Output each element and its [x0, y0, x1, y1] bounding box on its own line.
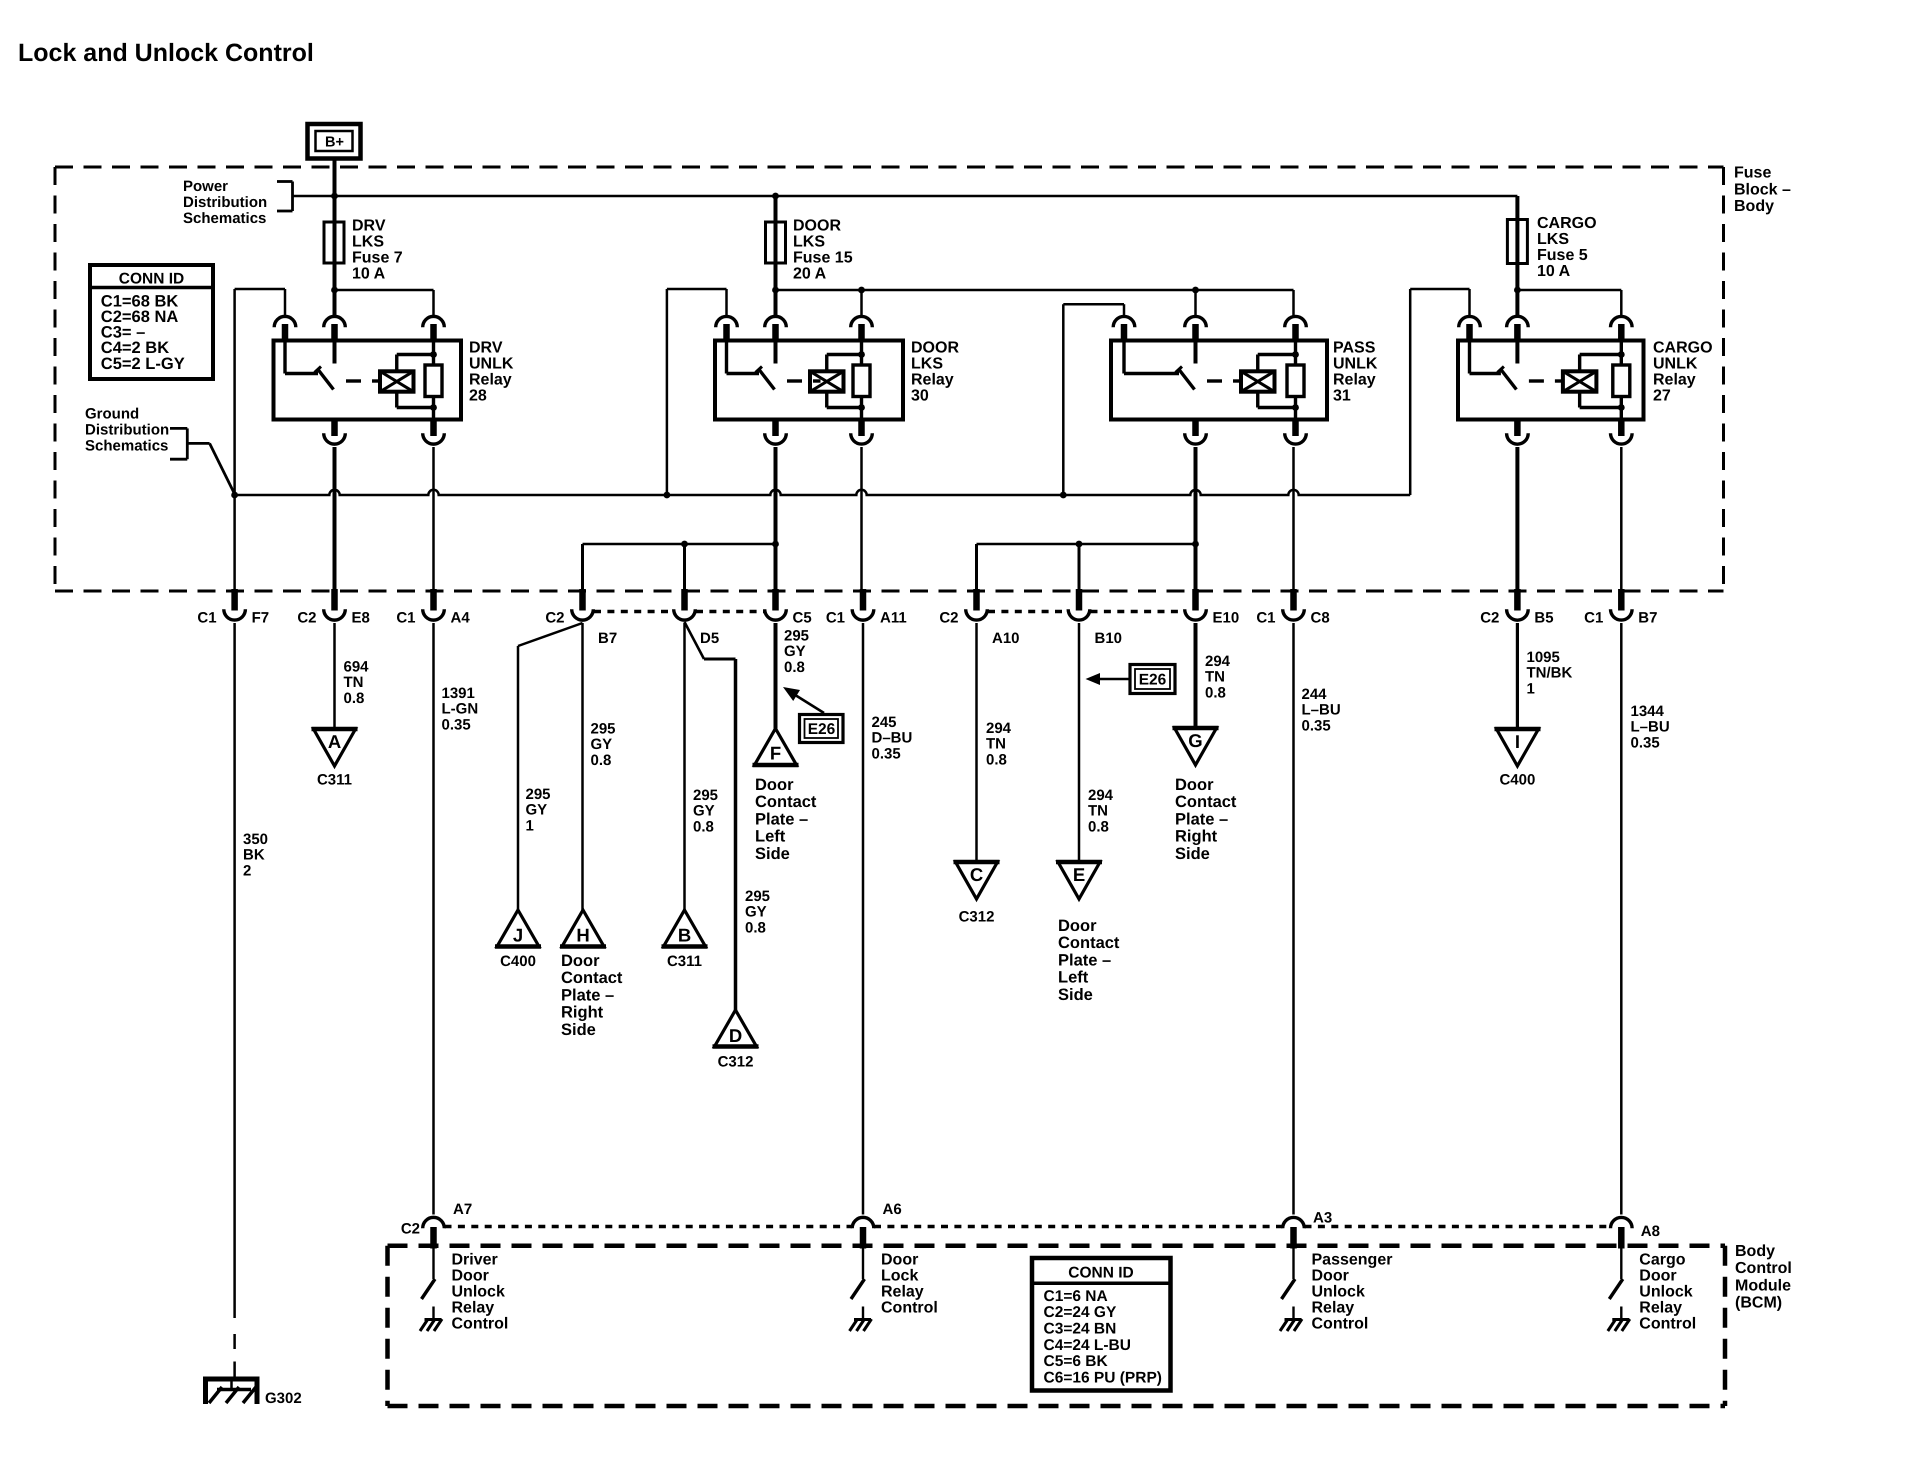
connector arc pin 2 (top) [324, 316, 346, 327]
label: Door Contact Plate - Left Side (E) [1058, 917, 1120, 1004]
svg-text:H: H [576, 925, 589, 946]
svg-text:Plate –: Plate – [561, 986, 614, 1004]
fuse: DOOR LKS Fuse 15 20 A [766, 196, 786, 316]
svg-text:Side: Side [755, 845, 790, 863]
label: 295 GY 0.8 (F) [784, 628, 809, 676]
BCM dashed outline [388, 1246, 1726, 1406]
wire: relay31 coil out to C8 [1292, 447, 1295, 591]
wire 350 BK 2 to G302 [233, 623, 236, 1318]
svg-text:C312: C312 [959, 909, 995, 926]
svg-text:C3=24 BN: C3=24 BN [1044, 1321, 1117, 1338]
svg-text:Plate –: Plate – [1058, 951, 1111, 969]
junction: coil/resistor bottom [1618, 404, 1625, 411]
wire: relay30 switch out to C5 [774, 447, 778, 591]
svg-text:1: 1 [526, 817, 534, 834]
wire: power distribution bus [293, 195, 1518, 198]
switch (movable contact) [1122, 341, 1125, 374]
svg-text:Power: Power [183, 178, 228, 195]
label: 1391 L-GN 0.35 [442, 685, 479, 733]
wire: relay28 coil out to A4 [432, 447, 435, 591]
internal ground for A6 [854, 1318, 871, 1321]
relay coil [1563, 371, 1597, 391]
svg-text:1095: 1095 [1527, 649, 1560, 666]
triangle connector C / C312 [954, 862, 1000, 899]
svg-text:C312: C312 [718, 1054, 754, 1071]
fuse: DRV LKS Fuse 7 10 A [324, 196, 344, 316]
svg-text:Passenger: Passenger [1312, 1252, 1393, 1269]
triangle connector I / C400 [1495, 729, 1541, 766]
svg-text:Control: Control [1735, 1260, 1792, 1277]
svg-text:Relay: Relay [1333, 372, 1376, 389]
svg-text:694: 694 [344, 659, 370, 676]
svg-text:0.35: 0.35 [872, 745, 901, 762]
junction: E10 branch [1192, 541, 1199, 548]
wire: B7 diagonal to J [518, 623, 583, 646]
wire: relay28 switch out to E8 [333, 447, 337, 591]
svg-text:1: 1 [1527, 680, 1535, 697]
svg-text:0.35: 0.35 [1631, 734, 1660, 751]
connector arc pin 1 (top) [1113, 316, 1135, 327]
label pointer: Ground Distribution Schematics [85, 406, 235, 495]
connector arc pin 2 (top) [765, 316, 787, 327]
svg-text:Door: Door [561, 952, 600, 970]
callout E26 (right) [1086, 665, 1176, 694]
svg-text:245: 245 [872, 714, 897, 731]
svg-text:Fuse: Fuse [1734, 165, 1771, 182]
svg-text:E: E [1073, 864, 1085, 885]
connector arc pin 5 (coil out) (bottom) [1618, 418, 1625, 437]
svg-text:Control: Control [881, 1300, 938, 1317]
svg-text:A3: A3 [1313, 1210, 1332, 1227]
svg-text:20 A: 20 A [793, 266, 827, 283]
relay resistor [860, 341, 863, 366]
triangle connector D / C312 [713, 1010, 759, 1047]
wire: relay 31 NC contact to ground bus [1062, 304, 1065, 495]
wire: ground link to pin 1 [235, 288, 285, 291]
svg-text:0.8: 0.8 [745, 919, 766, 936]
connector arc pin 4 (switch out) (bottom) [1192, 418, 1199, 437]
BCM driver switch for A7 [432, 1249, 434, 1280]
svg-text:C2: C2 [1480, 610, 1499, 627]
wire 295 GY 0.8 (C5) to F [774, 623, 778, 729]
internal ground for A3 [1285, 1318, 1302, 1321]
svg-text:294: 294 [1205, 653, 1231, 670]
svg-text:B+: B+ [325, 135, 344, 151]
svg-text:J: J [513, 925, 523, 946]
svg-text:C2: C2 [401, 1221, 420, 1238]
table: CONN ID (fuse block) [90, 265, 213, 379]
ground G302 [203, 1379, 260, 1404]
svg-text:294: 294 [986, 720, 1012, 737]
switch (movable contact) [725, 341, 728, 374]
wire 1344 L-BU 0.35 to BCM A8 [1620, 623, 1623, 1215]
svg-text:31: 31 [1333, 388, 1351, 405]
svg-text:Relay: Relay [452, 1300, 495, 1317]
label: 295 GY 0.8 (H) [591, 721, 616, 769]
label: CARGO LKS Fuse 5 10A [1537, 215, 1597, 280]
svg-text:Driver: Driver [452, 1252, 498, 1269]
svg-text:295: 295 [591, 721, 616, 738]
connector arc pin 3 (top) [1611, 316, 1633, 327]
label: 694 TN 0.8 [344, 659, 370, 707]
svg-text:Lock and Unlock Control: Lock and Unlock Control [18, 39, 314, 67]
svg-text:E26: E26 [1139, 672, 1167, 689]
label: 1095 TN/BK 1 [1527, 649, 1573, 697]
svg-text:C2: C2 [939, 610, 958, 627]
svg-text:244: 244 [1302, 686, 1328, 703]
svg-text:F7: F7 [252, 610, 270, 627]
svg-text:Control: Control [452, 1316, 509, 1333]
wire: relay 27 NC contact to ground bus [1409, 289, 1412, 495]
svg-text:B10: B10 [1095, 630, 1123, 647]
svg-text:D: D [729, 1025, 742, 1046]
svg-text:GY: GY [693, 803, 715, 820]
svg-text:1391: 1391 [442, 685, 475, 702]
connector pin E10 at x=1195.5 [1185, 589, 1240, 627]
connector pin B7 at x=1621.3 [1584, 589, 1657, 627]
connector arc pin 1 (top) [1459, 316, 1481, 327]
switch common stub (pin 2 internal) [1194, 341, 1198, 364]
triangle connector H [560, 910, 606, 947]
svg-text:Relay: Relay [1639, 1300, 1682, 1317]
BCM connector pin A3 [1283, 1217, 1305, 1228]
svg-text:Contact: Contact [1058, 934, 1120, 952]
junction: relay 30 coil feed [860, 290, 863, 316]
svg-text:C1: C1 [1256, 610, 1275, 627]
svg-text:I: I [1515, 731, 1520, 752]
svg-text:C2: C2 [297, 610, 316, 627]
svg-text:Door: Door [881, 1252, 918, 1269]
svg-text:TN: TN [344, 674, 364, 691]
connector arc pin 1 (top) [274, 316, 296, 327]
wire: ground link to pin 1 [1063, 303, 1124, 306]
svg-text:295: 295 [693, 787, 718, 804]
svg-text:B5: B5 [1534, 610, 1553, 627]
svg-text:Control: Control [1312, 1316, 1369, 1333]
relay 30 DOOR LKS [667, 289, 960, 444]
connector arc pin 1 (top) [716, 316, 738, 327]
junction: ground bus / relay30 leg [664, 492, 671, 499]
junction: coil/resistor top [430, 351, 437, 358]
label: 350 BK 2 [243, 831, 268, 879]
label: Door Contact Plate - Right Side (H) [561, 952, 623, 1039]
svg-text:GY: GY [784, 643, 806, 660]
svg-text:A6: A6 [883, 1201, 902, 1218]
svg-text:Body: Body [1734, 198, 1774, 215]
svg-text:DRV: DRV [469, 340, 503, 357]
svg-text:UNLK: UNLK [469, 356, 514, 373]
label: Fuse Block - Body [1734, 165, 1791, 216]
relay resistor [1620, 341, 1623, 366]
connector arc pin 5 (coil out) (bottom) [430, 418, 437, 437]
connector arc pin 3 (top) [423, 316, 445, 327]
wire: relay27 switch out to B5 [1515, 447, 1519, 591]
svg-text:C1: C1 [396, 610, 415, 627]
svg-text:28: 28 [469, 388, 487, 405]
svg-text:Left: Left [755, 828, 786, 846]
label: DOOR LKS Fuse 15 20A [793, 218, 853, 283]
relay 28 DRV UNLK [235, 289, 514, 444]
connector arc pin 5 (coil out) (bottom) [858, 418, 865, 437]
svg-text:BK: BK [243, 847, 265, 864]
junction: relay 31 switch feed [1194, 290, 1197, 316]
wire: relay30 coil out to A11 [860, 447, 863, 591]
svg-text:Fuse 15: Fuse 15 [793, 250, 853, 267]
fuse: CARGO LKS Fuse 5 10 A [1507, 196, 1527, 316]
fuse block body dashed outline [55, 167, 1724, 591]
svg-text:Lock: Lock [881, 1268, 918, 1285]
svg-text:A10: A10 [992, 630, 1020, 647]
relay 31 PASS UNLK [1063, 304, 1378, 444]
wire: ground link to pin 1 [1410, 288, 1469, 291]
svg-text:0.8: 0.8 [1088, 818, 1109, 835]
junction: coil/resistor bottom [430, 404, 437, 411]
relay box [1111, 341, 1327, 420]
svg-text:0.8: 0.8 [1205, 684, 1226, 701]
triangle connector E [1056, 862, 1102, 899]
svg-text:UNLK: UNLK [1653, 356, 1698, 373]
junction: coil/resistor top [1292, 351, 1299, 358]
label pointer: Power Distribution Schematics [183, 178, 293, 227]
svg-text:DRV: DRV [352, 218, 386, 235]
svg-text:Side: Side [1175, 845, 1210, 863]
label: Body Control Module (BCM) [1735, 1243, 1792, 1312]
svg-text:Door: Door [1058, 917, 1097, 935]
relay resistor [1294, 341, 1297, 366]
BCM driver switch for A6 [862, 1249, 864, 1280]
svg-text:LKS: LKS [911, 356, 943, 373]
wire 694 TN 0.8 to A [333, 623, 336, 729]
svg-text:UNLK: UNLK [1333, 356, 1378, 373]
svg-text:TN: TN [1088, 803, 1108, 820]
svg-text:CONN ID: CONN ID [1068, 1264, 1133, 1281]
relay box [715, 341, 903, 420]
label: 294 TN 0.8 (E) [1088, 787, 1114, 835]
svg-text:0.8: 0.8 [591, 752, 612, 769]
junction: D5 branch [681, 541, 688, 548]
svg-text:0.8: 0.8 [693, 818, 714, 835]
wire: relay 28 NC contact to ground bus [233, 289, 236, 591]
junction: coil/resistor bottom [858, 404, 865, 411]
svg-text:TN: TN [1205, 669, 1225, 686]
svg-text:DOOR: DOOR [793, 218, 841, 235]
connector arc pin 5 (coil out) (bottom) [1292, 418, 1299, 437]
wire: fuse 15 output bus to relays 30/31 [776, 289, 1294, 292]
svg-text:C8: C8 [1311, 610, 1330, 627]
svg-text:Unlock: Unlock [452, 1284, 505, 1301]
svg-text:2: 2 [243, 862, 251, 879]
connector pin A4 at x=433.5 [396, 589, 470, 627]
triangle connector F [753, 729, 799, 766]
triangle connector A / C311 [312, 729, 358, 766]
svg-text:Right: Right [1175, 828, 1218, 846]
svg-text:A11: A11 [880, 610, 907, 627]
connector pin C5 at x=775.5 [765, 589, 812, 627]
switch common stub (pin 2 internal) [333, 341, 337, 364]
connector pin D5 at x=684.5 [674, 589, 719, 647]
label: 1344 L-BU 0.35 [1631, 703, 1670, 751]
BCM in-line connector dashed links [445, 1225, 853, 1228]
junction: coil/resistor top [858, 351, 865, 358]
label: 295 GY 0.8 (D) [745, 888, 770, 936]
svg-text:Right: Right [561, 1004, 604, 1022]
wire: D5 to B [683, 623, 686, 910]
relay coil [810, 371, 844, 391]
svg-text:Relay: Relay [1312, 1300, 1355, 1317]
wire 1391 L-GN 0.35 to BCM A7 [432, 623, 435, 1215]
svg-text:TN/BK: TN/BK [1527, 665, 1573, 682]
switch (movable contact) [283, 341, 286, 374]
switch (movable contact) [1468, 341, 1471, 374]
switch common stub (pin 2 internal) [1515, 341, 1519, 364]
wire: D5 diagonal to D [685, 622, 705, 659]
svg-text:Door: Door [452, 1268, 489, 1285]
svg-text:LKS: LKS [1537, 231, 1569, 248]
svg-text:B7: B7 [1638, 610, 1657, 627]
connector pin E8 at x=334.5 [297, 589, 370, 627]
svg-text:Relay: Relay [911, 372, 954, 389]
svg-text:Body: Body [1735, 1243, 1775, 1260]
wire: relay27 coil out to B7 [1620, 447, 1623, 591]
svg-text:Contact: Contact [755, 793, 817, 811]
wire 294 TN 0.8 to C [975, 623, 978, 862]
connector pin F7 at x=234.6 [197, 589, 269, 627]
connector pin A11 at x=863 [826, 589, 907, 627]
triangle connector G [1173, 728, 1219, 765]
svg-text:Contact: Contact [561, 969, 623, 987]
svg-text:10 A: 10 A [352, 266, 386, 283]
svg-text:A4: A4 [451, 610, 471, 627]
relay 27 CARGO UNLK [1410, 289, 1712, 444]
svg-text:0.8: 0.8 [784, 659, 805, 676]
svg-text:G302: G302 [265, 1390, 302, 1407]
svg-text:C400: C400 [500, 953, 536, 970]
relay resistor [432, 341, 435, 366]
connector pin B10 at x=1079 [1068, 589, 1122, 647]
internal ground for A8 [1612, 1318, 1629, 1321]
svg-text:Cargo: Cargo [1639, 1252, 1685, 1269]
junction: coil/resistor bottom [1292, 404, 1299, 411]
label: DRV LKS Fuse 7 10A [352, 218, 403, 283]
connector pin B5 at x=1517.4 [1480, 589, 1553, 627]
svg-text:C1=6 NA: C1=6 NA [1044, 1288, 1108, 1305]
wire: relay 30 NC contact to ground bus [666, 289, 669, 495]
in-line connector dashed links [594, 610, 673, 613]
relay box [1458, 341, 1644, 420]
internal ground for A7 [425, 1318, 442, 1321]
actuation dashes [787, 379, 802, 382]
svg-text:E8: E8 [352, 610, 370, 627]
svg-text:E10: E10 [1213, 610, 1240, 627]
svg-text:295: 295 [526, 786, 551, 803]
svg-text:C4=24 L-BU: C4=24 L-BU [1044, 1337, 1131, 1354]
svg-text:295: 295 [745, 888, 770, 905]
svg-text:(BCM): (BCM) [1735, 1295, 1782, 1312]
svg-text:0.35: 0.35 [1302, 717, 1331, 734]
svg-text:350: 350 [243, 831, 268, 848]
svg-text:0.8: 0.8 [344, 690, 365, 707]
svg-text:0.8: 0.8 [986, 751, 1007, 768]
wire: relay31 switch out to E10 [1194, 447, 1198, 591]
svg-text:Side: Side [561, 1021, 596, 1039]
connector pin C8 at x=1293.5 [1256, 589, 1329, 627]
wire: fuse 7 output to relay 28 coil [335, 289, 434, 292]
wire: fuse 5 output to relay 27 coil [1517, 289, 1621, 292]
relay coil [1241, 371, 1275, 391]
table: CONN ID (BCM) [1032, 1258, 1171, 1391]
junction: coil/resistor top [1618, 351, 1625, 358]
BCM driver switch for A8 [1620, 1249, 1622, 1280]
svg-text:27: 27 [1653, 388, 1671, 405]
svg-text:Distribution: Distribution [85, 422, 169, 439]
wire 294 TN 0.8 to E [1078, 623, 1081, 862]
svg-text:G: G [1188, 730, 1202, 751]
svg-text:A7: A7 [453, 1201, 472, 1218]
callout E26 (left) [783, 687, 843, 743]
svg-text:Plate –: Plate – [1175, 810, 1228, 828]
connector arc pin 2 (top) [1185, 316, 1207, 327]
svg-text:Contact: Contact [1175, 793, 1237, 811]
wire: ground distribution bus [235, 490, 1411, 495]
svg-text:Door: Door [1175, 776, 1214, 794]
svg-text:GY: GY [591, 736, 613, 753]
connector arc pin 2 (top) [1507, 316, 1529, 327]
actuation dashes [346, 379, 361, 382]
svg-text:Side: Side [1058, 986, 1093, 1004]
label: 294 TN 0.8 (G) [1205, 653, 1231, 701]
svg-text:Distribution: Distribution [183, 194, 267, 211]
svg-text:Relay: Relay [469, 372, 512, 389]
svg-text:LKS: LKS [793, 234, 825, 251]
svg-text:Unlock: Unlock [1639, 1284, 1692, 1301]
svg-text:1344: 1344 [1631, 703, 1665, 720]
svg-text:E26: E26 [808, 721, 836, 738]
svg-text:PASS: PASS [1333, 340, 1376, 357]
svg-text:Schematics: Schematics [85, 438, 168, 455]
svg-text:GY: GY [745, 904, 767, 921]
svg-text:B7: B7 [598, 630, 617, 647]
svg-text:C6=16 PU (PRP): C6=16 PU (PRP) [1044, 1370, 1162, 1387]
junction: B10 branch [1076, 541, 1083, 548]
svg-text:Fuse 7: Fuse 7 [352, 250, 403, 267]
svg-text:C2: C2 [545, 610, 564, 627]
svg-text:Block –: Block – [1734, 181, 1791, 198]
svg-text:10 A: 10 A [1537, 263, 1571, 280]
svg-text:Door: Door [1312, 1268, 1349, 1285]
svg-text:TN: TN [986, 736, 1006, 753]
svg-text:Unlock: Unlock [1312, 1284, 1365, 1301]
svg-text:F: F [770, 743, 781, 764]
label: Door Contact Plate - Right Side (G) [1175, 776, 1237, 863]
actuation dashes [1529, 379, 1544, 382]
svg-text:GY: GY [526, 802, 548, 819]
label: 244 L-BU 0.35 [1302, 686, 1341, 734]
svg-text:CONN ID: CONN ID [119, 271, 184, 288]
svg-text:A: A [328, 731, 341, 752]
svg-text:Plate –: Plate – [755, 810, 808, 828]
junction: B+ / bus [331, 193, 338, 200]
triangle connector B / C311 [662, 910, 708, 947]
label: 294 TN 0.8 (C) [986, 720, 1012, 768]
junction: ground bus / relay28 leg [231, 492, 238, 499]
svg-text:Ground: Ground [85, 406, 139, 423]
svg-text:C1: C1 [197, 610, 216, 627]
wire: branch to A10/B10 [977, 543, 1196, 546]
svg-text:D–BU: D–BU [872, 730, 913, 747]
relay coil [380, 371, 414, 391]
connector pin B7 at x=582.5 [545, 589, 617, 647]
connector arc pin 4 (switch out) (bottom) [1514, 418, 1521, 437]
